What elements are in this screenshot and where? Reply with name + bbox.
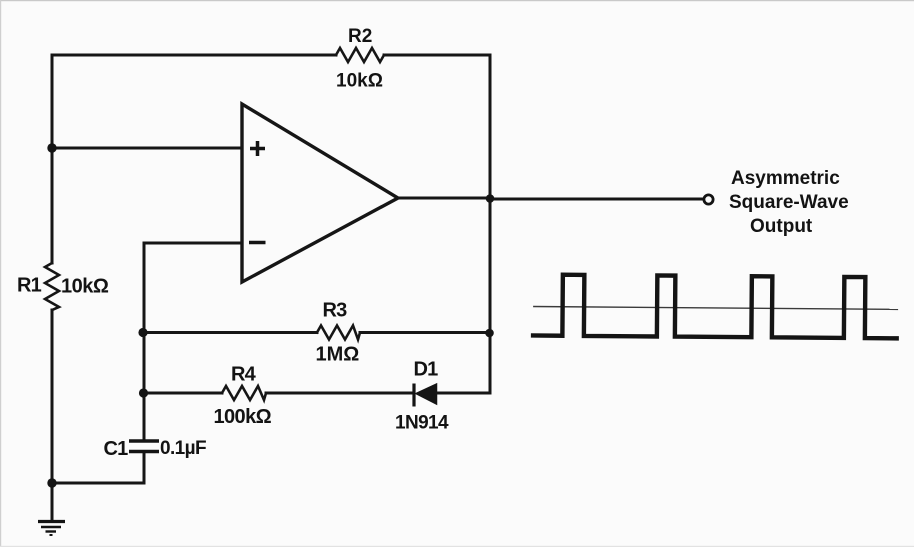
svg-text:10kΩ: 10kΩ	[61, 276, 109, 298]
node A junction left/+input	[47, 143, 56, 152]
svg-text:Output: Output	[750, 216, 813, 237]
waveform square wave trace	[531, 274, 899, 338]
node C R3 left junction	[138, 328, 147, 337]
svg-text:1MΩ: 1MΩ	[316, 344, 360, 366]
scan edge bottom	[0, 546, 914, 547]
wire top feedback	[52, 54, 490, 57]
diode D1	[414, 384, 437, 407]
svg-text:R1: R1	[17, 275, 42, 297]
node D R3 right junction	[485, 329, 494, 338]
svg-text:1N914: 1N914	[395, 413, 449, 434]
svg-text:C1: C1	[104, 438, 129, 460]
resistor R2	[336, 48, 384, 62]
wire R4 diode row	[144, 392, 490, 395]
svg-text:R3: R3	[323, 300, 348, 322]
op-amp U1	[242, 104, 398, 282]
wire inverting branch vertical	[143, 243, 146, 440]
wire inverting input	[144, 242, 242, 245]
wire output	[398, 198, 704, 199]
resistor R1	[45, 263, 59, 310]
svg-text:D1: D1	[414, 359, 439, 381]
resistor R3	[317, 326, 360, 340]
svg-text:Square-Wave: Square-Wave	[729, 192, 849, 213]
capacitor C1	[129, 441, 159, 452]
svg-text:100kΩ: 100kΩ	[214, 406, 272, 428]
node F bottom left junction	[47, 478, 56, 487]
resistor R4	[222, 386, 266, 400]
output terminal	[704, 195, 713, 204]
node B output junction	[486, 194, 495, 203]
scan edge left	[0, 0, 1, 547]
svg-text:10kΩ: 10kΩ	[336, 71, 383, 92]
wire R3 row	[144, 331, 490, 334]
wire left vertical	[51, 55, 54, 521]
op-amp minus sign	[249, 241, 266, 245]
node E R4 left junction	[139, 388, 148, 397]
svg-text:0.1µF: 0.1µF	[160, 438, 206, 459]
wire noninverting input	[52, 147, 242, 150]
svg-text:Asymmetric: Asymmetric	[731, 168, 840, 189]
scan edge top	[0, 0, 914, 1]
op-amp plus sign	[250, 141, 265, 156]
svg-text:R4: R4	[231, 364, 257, 386]
wire right vertical	[489, 55, 492, 393]
ground	[38, 522, 65, 536]
svg-text:R2: R2	[348, 26, 372, 47]
wire bottom return	[52, 452, 144, 483]
waveform axis line	[533, 307, 898, 310]
